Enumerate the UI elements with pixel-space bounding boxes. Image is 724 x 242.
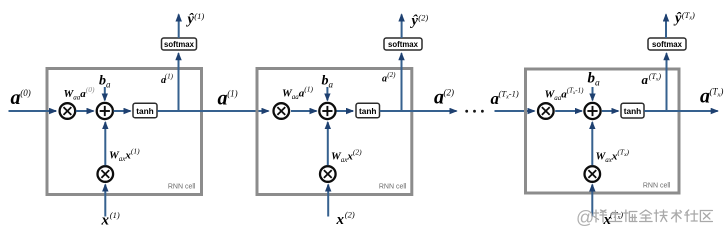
svg-text:x: x [101,213,110,229]
wire ba bias arrow cell1 [104,87,106,100]
tanh box cell3 [621,103,644,118]
svg-text:a: a [382,74,387,85]
svg-text:(2): (2) [387,71,396,79]
svg-text:ŷ: ŷ [186,12,195,28]
softmax box cell2 [384,38,422,50]
node a0 input label [11,87,31,109]
multiply node (Waa) cell1 [60,103,76,119]
label ba cell2 [322,74,334,90]
wire bottom otimes to oplus cell1 [104,122,106,165]
wire oplus to tanh cell1 [114,110,131,112]
wire otimes to oplus cell2 [291,110,317,112]
svg-text:(Tx): (Tx) [649,72,662,83]
node a2 label after cell2 [434,87,454,109]
multiply node (Wax) bottom cell2 [320,166,336,182]
multiply node (Wax) bottom cell1 [98,166,114,182]
char ji [654,210,667,222]
add node cell3 [584,103,600,119]
label a(1) inside cell1 [161,73,174,87]
wire tanh output cell2 [380,110,457,112]
wire tanh output cell3 [644,110,718,112]
svg-text:(1): (1) [227,89,238,99]
label RNN cell (cell 2) [379,184,407,191]
wire x2 input arrow cell2 [327,185,329,217]
label yhat(1) [186,11,205,28]
wire softmax to yhat cell3 [665,15,667,39]
wire softmax to yhat cell1 [178,15,180,39]
svg-text:ŷ: ŷ [410,13,419,29]
svg-text:RNN cell: RNN cell [168,184,196,191]
svg-text:(1): (1) [165,73,174,81]
wire oplus to tanh cell3 [602,110,619,112]
svg-text:(2): (2) [444,88,455,98]
char jin [640,210,653,222]
wire into cell3 [495,110,535,112]
label a(2) inside cell2 [382,71,396,85]
svg-text:softmax: softmax [164,40,195,49]
svg-text:(1): (1) [194,11,204,21]
label x(2) input [336,210,355,229]
label RNN cell (cell 1) [168,184,196,191]
wire branch up to softmax cell2 [401,53,403,111]
add node cell2 [319,103,335,119]
multiply node (Waa) cell2 [274,103,290,119]
softmax box cell1 [162,38,197,50]
wire bottom otimes to oplus cell2 [327,122,329,165]
svg-text:(Tx): (Tx) [682,10,695,22]
wire oplus to tanh cell2 [337,110,354,112]
svg-text:a: a [642,72,649,87]
label Waa a(1) [282,85,314,102]
label ba cell1 [99,74,111,90]
tanh box cell2 [356,103,380,118]
svg-text:(0): (0) [20,88,31,98]
svg-text:a: a [11,87,21,109]
multiply node (Wax) bottom cell3 [585,166,601,182]
svg-text:x: x [336,212,345,228]
char qu [700,211,712,222]
svg-text:(1): (1) [110,210,120,220]
watermark @ sign [576,208,594,228]
RNN cell 1 box [47,69,202,195]
svg-text:a: a [218,88,228,110]
wire branch up to softmax cell3 [666,53,668,111]
label yhat(2) [410,13,429,30]
label yhat(Tx) [673,10,695,27]
svg-text:a: a [434,87,444,109]
ellipsis dots [465,110,483,113]
softmax box cell3 [648,38,686,50]
char jue [624,210,637,222]
svg-text:(2): (2) [418,13,428,23]
node aTx output label [700,86,723,108]
char tu [609,211,622,222]
wire x1 input arrow cell1 [104,185,106,217]
wire a0 input arrow [9,110,57,112]
svg-text:ŷ: ŷ [673,11,682,27]
watermark CJK glyphs (hand-drawn strokes) [594,210,713,222]
char shu [672,210,682,222]
wire softmax to yhat cell2 [401,15,403,39]
char she [685,210,698,222]
svg-text:tanh: tanh [624,106,642,116]
wire xTx input arrow cell3 [591,185,593,217]
RNN cell 2 box [257,69,412,195]
multiply node (Waa) cell3 [538,103,554,119]
svg-text:RNN cell: RNN cell [379,184,407,191]
wire ba bias arrow cell3 [592,87,594,100]
label x(1) input [101,210,120,229]
label Waa a(Tx-1) [545,87,585,103]
node a1 label between cells [218,88,238,110]
svg-text:tanh: tanh [359,106,377,116]
wire branch up to softmax cell1 [178,53,180,111]
svg-text:tanh: tanh [136,106,154,116]
label x(Tx) input [603,210,624,229]
label ba cell3 [588,71,601,89]
label Wax x(1) [109,147,140,164]
wire otimes to oplus cell3 [555,110,582,112]
label Waa a(0) [64,85,96,102]
node aTx-1 label before cell3 [491,89,519,109]
wire ba bias arrow cell2 [326,87,328,100]
svg-text:@: @ [576,208,594,228]
label Wax x(Tx) [596,148,630,165]
svg-text:softmax: softmax [652,40,683,49]
RNN cell 3 box [526,69,680,193]
svg-text:RNN cell: RNN cell [643,183,671,190]
svg-text:(2): (2) [345,210,355,220]
wire bottom otimes to oplus cell3 [591,122,593,165]
tanh box cell1 [133,103,157,118]
label Wax x(2) [331,148,362,165]
label a(Tx) inside cell3 [642,72,662,87]
svg-text:softmax: softmax [388,40,419,49]
wire tanh output to cell2 otimes [157,110,268,112]
add node cell1 [97,103,113,119]
svg-text:a: a [700,86,710,108]
char xi [594,210,607,222]
label RNN cell (cell 3) [643,183,671,190]
wire otimes to oplus cell1 [76,110,94,112]
svg-text:(Tx): (Tx) [610,210,623,222]
